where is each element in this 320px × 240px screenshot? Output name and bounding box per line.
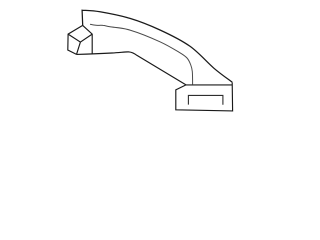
mounting base: inner recess bracket xyxy=(188,95,223,104)
end clip cube: front vertical edge F-B xyxy=(77,42,81,54)
end clip cube: right chain T-R-RB xyxy=(83,25,93,53)
grab handle arm: left end edge + outer top edge sweeping to lower right xyxy=(82,10,232,82)
end clip cube: left outline chain T-L-LB-B xyxy=(68,25,83,54)
grab handle arm inner contour line xyxy=(90,24,193,84)
mounting base outline: right edge, bottom edge, left edge, chamfer xyxy=(176,82,233,111)
grab handle arm underside edge from clip to base xyxy=(77,52,187,85)
end clip cube: top face front edges L-F-R xyxy=(68,34,92,42)
mounting base: top edge xyxy=(186,84,232,86)
